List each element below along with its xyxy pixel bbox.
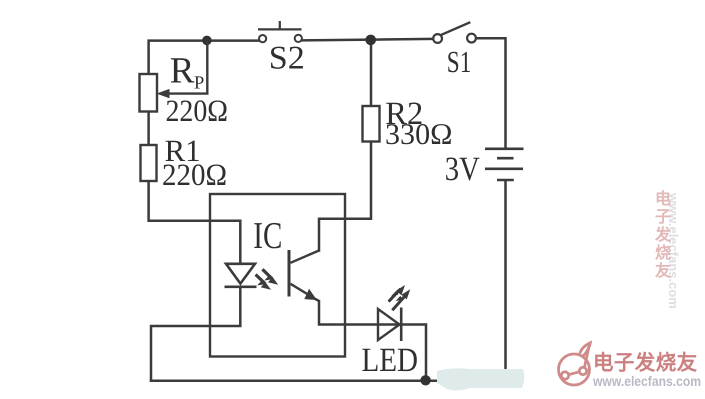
- watermark logo circle bottom right: [559, 343, 591, 385]
- svg-text:IC: IC: [253, 215, 282, 257]
- opto LED cathode bar: [225, 285, 257, 288]
- output LED triangle: [378, 309, 400, 340]
- svg-text:3V: 3V: [445, 151, 480, 188]
- svg-text:S2: S2: [269, 41, 305, 77]
- output LED cathode bar: [400, 308, 403, 342]
- switch S1: [433, 22, 476, 43]
- opto light arrow upper: [262, 269, 278, 285]
- svg-text:电子发烧友: 电子发烧友: [593, 351, 698, 375]
- phototransistor base bar: [288, 250, 291, 297]
- RP wiper wire: [165, 40, 207, 93]
- wire R2 branch top: [370, 40, 373, 106]
- wire opto LED cathode to bottom left: [151, 287, 240, 381]
- LED light arrow right: [392, 289, 410, 310]
- svg-text:330Ω: 330Ω: [385, 118, 453, 151]
- opto LED triangle: [226, 264, 255, 284]
- wire bottom rail: [151, 379, 440, 382]
- phototransistor emitter: [291, 284, 309, 295]
- svg-text:www.elecfans.com: www.elecfans.com: [666, 192, 681, 309]
- wire R1 bottom to IC input: [149, 181, 241, 264]
- junction dot above R2: [365, 35, 376, 46]
- wire R2 bottom to collector: [319, 142, 371, 251]
- svg-text:www.elecfans.com: www.elecfans.com: [592, 373, 701, 389]
- IC box (optocoupler): [210, 194, 345, 357]
- svg-text:R: R: [170, 51, 195, 92]
- RP wiper arrowhead: [157, 89, 170, 98]
- wire battery bottom down: [504, 181, 507, 371]
- battery 3V plates: [485, 149, 524, 180]
- wire top rail left segment: [149, 41, 259, 75]
- eraser blob over bottom rail: [437, 368, 524, 390]
- svg-text:220Ω: 220Ω: [162, 157, 227, 192]
- wire rail S2 to S1: [303, 39, 434, 41]
- potentiometer RP body: [140, 74, 158, 112]
- phototransistor collector: [291, 251, 320, 263]
- resistor R2 body: [363, 106, 380, 142]
- wire emitter to output LED line: [313, 298, 426, 381]
- wire left branch Rp to R1: [147, 112, 150, 146]
- junction dot bottom rail: [420, 375, 430, 385]
- resistor R1 body: [141, 145, 157, 181]
- svg-text:LED: LED: [362, 342, 419, 379]
- LED light arrow left: [389, 285, 405, 302]
- svg-text:P: P: [194, 73, 204, 93]
- emitter arrowhead: [304, 289, 317, 300]
- junction dot at Rp wiper top: [202, 36, 212, 46]
- svg-text:S1: S1: [447, 45, 472, 79]
- switch S2 (push button): [258, 21, 302, 42]
- wire rail S1 to corner and down to battery: [476, 38, 505, 148]
- opto light arrow lower: [256, 275, 271, 290]
- svg-text:220Ω: 220Ω: [166, 93, 229, 128]
